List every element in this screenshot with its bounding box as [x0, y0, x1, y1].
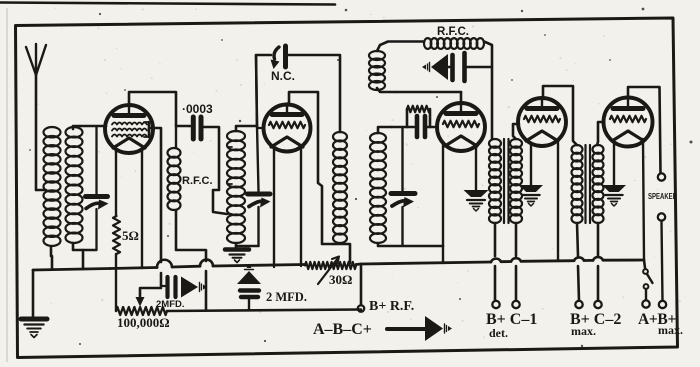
wire T2 primary down [577, 223, 579, 301]
resistor 5ohm rheostat [113, 150, 120, 268]
terminal B plus C-2 [575, 301, 601, 308]
wire V2 plate loop [289, 92, 333, 244]
wire B plus RF drop [360, 266, 363, 305]
wire grid to V3 [391, 126, 438, 128]
bypass capacitor with plug arrow [422, 53, 492, 81]
svg-text:2MFD.: 2MFD. [156, 299, 185, 310]
svg-text:2 MFD.: 2 MFD. [266, 290, 307, 304]
svg-text:100,000Ω: 100,000Ω [117, 315, 170, 330]
transformer T1 primary [489, 139, 501, 223]
svg-text:N.C.: N.C. [271, 69, 295, 83]
terminal B plus det [492, 301, 519, 308]
potentiometer rail [115, 268, 117, 311]
terminal A plus B plus [642, 300, 666, 308]
svg-text:A–B–C+: A–B–C+ [313, 321, 372, 338]
rail wire to terminal [167, 310, 361, 312]
wire L5 bottom [333, 244, 350, 263]
transformer T1 secondary [510, 139, 522, 223]
wire T1 secondary down [515, 223, 518, 301]
resistor 100000ohm [116, 307, 167, 315]
svg-text:5Ω: 5Ω [122, 228, 139, 243]
wire L6 top to grid wire [378, 127, 391, 133]
earth ground [21, 319, 47, 338]
svg-text:SPEAKER: SPEAKER [648, 192, 677, 201]
svg-text:B+ R.F.: B+ R.F. [369, 299, 414, 314]
switch S1 [643, 260, 652, 300]
triode V1 [105, 104, 153, 153]
label A plus B plus [638, 311, 683, 337]
coil L4 second tuned [227, 131, 245, 243]
wire V5 plate [628, 87, 661, 173]
svg-text:30Ω: 30Ω [329, 272, 352, 287]
grid leak resistor [407, 106, 430, 127]
label 2MFD second [266, 290, 307, 304]
triode V5 [604, 97, 653, 147]
coil L1 antenna primary [44, 127, 61, 246]
triode V2 [264, 104, 311, 152]
wire V1 plate top [129, 92, 190, 126]
transformer T2 secondary [593, 145, 604, 223]
wire V4 grid [513, 124, 519, 139]
svg-text:max.: max. [571, 324, 596, 338]
wire V4 filament legs [531, 143, 558, 260]
coil L6 third secondary [370, 133, 386, 243]
filament bus wire [33, 260, 305, 270]
label 5ohm [122, 228, 139, 243]
ground under V5 [602, 185, 626, 206]
label B plus det C-1 [486, 311, 537, 340]
transformer T2 core [586, 145, 591, 223]
wire L1 bottom to bus [51, 247, 52, 268]
ground under tank2 [225, 250, 249, 263]
capacitor 2MFD second [237, 264, 261, 310]
grid condenser C4 [417, 116, 425, 137]
wire V2 grid stub [257, 127, 264, 129]
transformer T2 primary [572, 145, 583, 223]
label RFC top [437, 26, 469, 38]
coil L5 third primary [333, 132, 347, 243]
svg-text:R.F.C.: R.F.C. [437, 26, 469, 38]
pot wiper arrow [136, 288, 162, 307]
wire T2 secondary down [597, 223, 600, 301]
variable capacitor C2 [236, 55, 271, 246]
wire L2 top to grid node [73, 126, 106, 129]
wire V1 filament legs [116, 150, 142, 268]
svg-text:det.: det. [489, 326, 508, 340]
triode V4 [518, 97, 566, 146]
RF choke RFC top assembly [369, 38, 492, 139]
wire L4 bottom [235, 243, 238, 247]
label B plus C-2 [570, 311, 621, 338]
wire V5 grid [597, 122, 604, 145]
capacitor .0003 grid condenser [193, 117, 201, 139]
wire V4 plate [543, 86, 577, 145]
wire .0003 to tap [202, 127, 227, 214]
transformer T1 core [504, 139, 509, 223]
variable capacitor C1 tuning [86, 127, 109, 250]
wire bus to earth [32, 270, 35, 317]
wire L2 bottom junction [73, 243, 96, 269]
wire antenna tap to L1 [36, 189, 46, 191]
neutralizing capacitor NC [256, 46, 340, 132]
RF choke RFC vertical [168, 126, 207, 309]
wire tank3 bottom [378, 243, 443, 246]
svg-text:·0003: ·0003 [182, 102, 213, 116]
wire T1 primary down [494, 223, 497, 301]
speaker terminals [648, 173, 677, 301]
antenna [26, 44, 46, 190]
terminal B plus RF [358, 305, 364, 311]
label RFC left [182, 175, 213, 187]
svg-text:R.F.C.: R.F.C. [182, 175, 213, 187]
wire V2 filament legs [274, 145, 301, 267]
wire V3 plate riser [460, 92, 463, 104]
wire L4 top to grid [236, 126, 257, 131]
triode V3 [437, 102, 485, 151]
arrow on 30ohm [318, 257, 339, 285]
wire V3 filament legs [443, 143, 476, 263]
label 100000ohm [117, 315, 170, 330]
variable capacitor C3 [391, 128, 415, 245]
ground under V3 [464, 190, 489, 211]
label B plus RF [369, 299, 414, 314]
label A-B-C plus and plug arrow [313, 316, 452, 341]
svg-text:max.: max. [658, 323, 683, 337]
wire V5 filament legs [614, 139, 644, 259]
wire V1 right exit [149, 128, 161, 286]
filament bus wire right [356, 257, 644, 264]
label .0003 [182, 102, 213, 116]
ground under V4 [519, 185, 543, 206]
label 2MFD first [156, 299, 185, 310]
rheostat 30ohm [305, 262, 356, 269]
capacitor 2MFD first [161, 277, 207, 298]
coil L2 antenna secondary [66, 127, 83, 243]
label NC [271, 69, 295, 83]
label 30ohm [329, 272, 352, 287]
